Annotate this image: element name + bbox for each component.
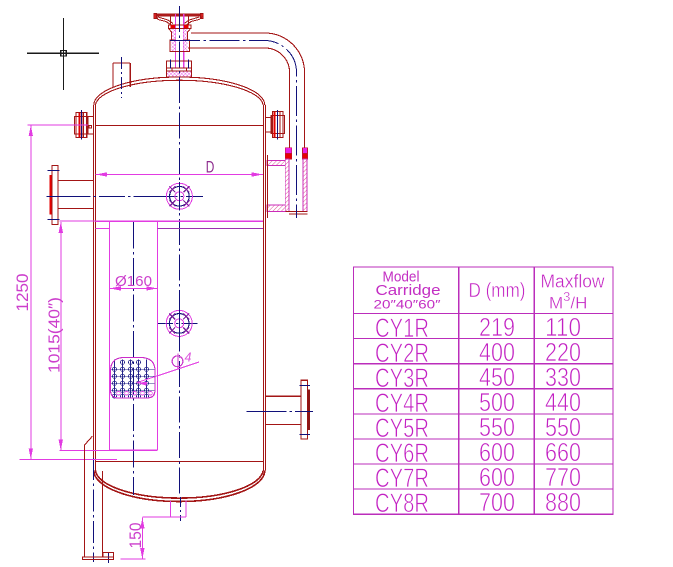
svg-text:20″40″60″: 20″40″60″ xyxy=(374,298,442,312)
svg-text:D: D xyxy=(206,159,215,177)
svg-text:700: 700 xyxy=(479,487,515,517)
svg-text:M3/H: M3/H xyxy=(549,289,587,313)
svg-text:D (mm): D (mm) xyxy=(469,280,526,302)
svg-text:Ø160: Ø160 xyxy=(115,273,152,290)
svg-text:CY8R: CY8R xyxy=(375,488,429,518)
svg-text:Carridge: Carridge xyxy=(376,282,441,299)
svg-text:150: 150 xyxy=(126,523,145,549)
svg-text:1015(40″): 1015(40″) xyxy=(47,297,64,373)
svg-text:1250: 1250 xyxy=(13,274,32,312)
svg-text:4: 4 xyxy=(185,351,192,365)
svg-text:Maxflow: Maxflow xyxy=(541,272,606,292)
svg-text:880: 880 xyxy=(545,487,581,517)
